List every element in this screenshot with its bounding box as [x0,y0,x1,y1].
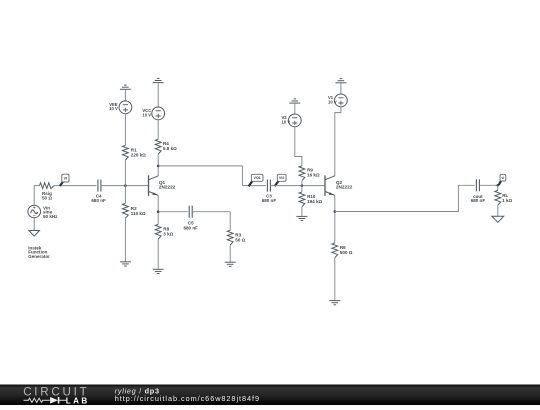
svg-text:VI2: VI2 [279,176,284,180]
svg-text:1 kΩ: 1 kΩ [502,198,512,203]
svg-text:VO1: VO1 [254,176,261,180]
svg-text:10 V: 10 V [282,119,291,124]
svg-text:Generator: Generator [28,254,50,259]
svg-text:http://circuitlab.com/c66w828j: http://circuitlab.com/c66w828jt84f9 [115,394,260,403]
svg-text:10 V: 10 V [142,112,151,117]
svg-text:110 kΩ: 110 kΩ [131,211,146,216]
svg-text:50 Ω: 50 Ω [235,237,245,242]
svg-text:16 kΩ: 16 kΩ [307,172,320,177]
svg-text:VI: VI [64,176,68,180]
svg-text:10 V: 10 V [328,99,337,104]
svg-text:680 nF: 680 nF [471,198,486,203]
svg-text:3 kΩ: 3 kΩ [163,232,173,237]
svg-text:2N2222: 2N2222 [159,184,176,189]
svg-text:50 Ω: 50 Ω [42,196,52,201]
svg-text:500 Ω: 500 Ω [340,250,353,255]
svg-text:5.8 kΩ: 5.8 kΩ [163,146,177,151]
svg-text:680 nF: 680 nF [183,225,198,230]
svg-text:50 kHz: 50 kHz [43,214,58,219]
svg-text:LAB: LAB [66,397,90,405]
svg-text:194 kΩ: 194 kΩ [307,199,322,204]
svg-text:10 V: 10 V [109,106,118,111]
svg-text:680 nF: 680 nF [262,198,277,203]
svg-text:2N2222: 2N2222 [336,184,353,189]
svg-text:vl: vl [502,176,505,180]
svg-text:680 nF: 680 nF [91,198,106,203]
svg-text:220 kΩ: 220 kΩ [131,153,146,158]
